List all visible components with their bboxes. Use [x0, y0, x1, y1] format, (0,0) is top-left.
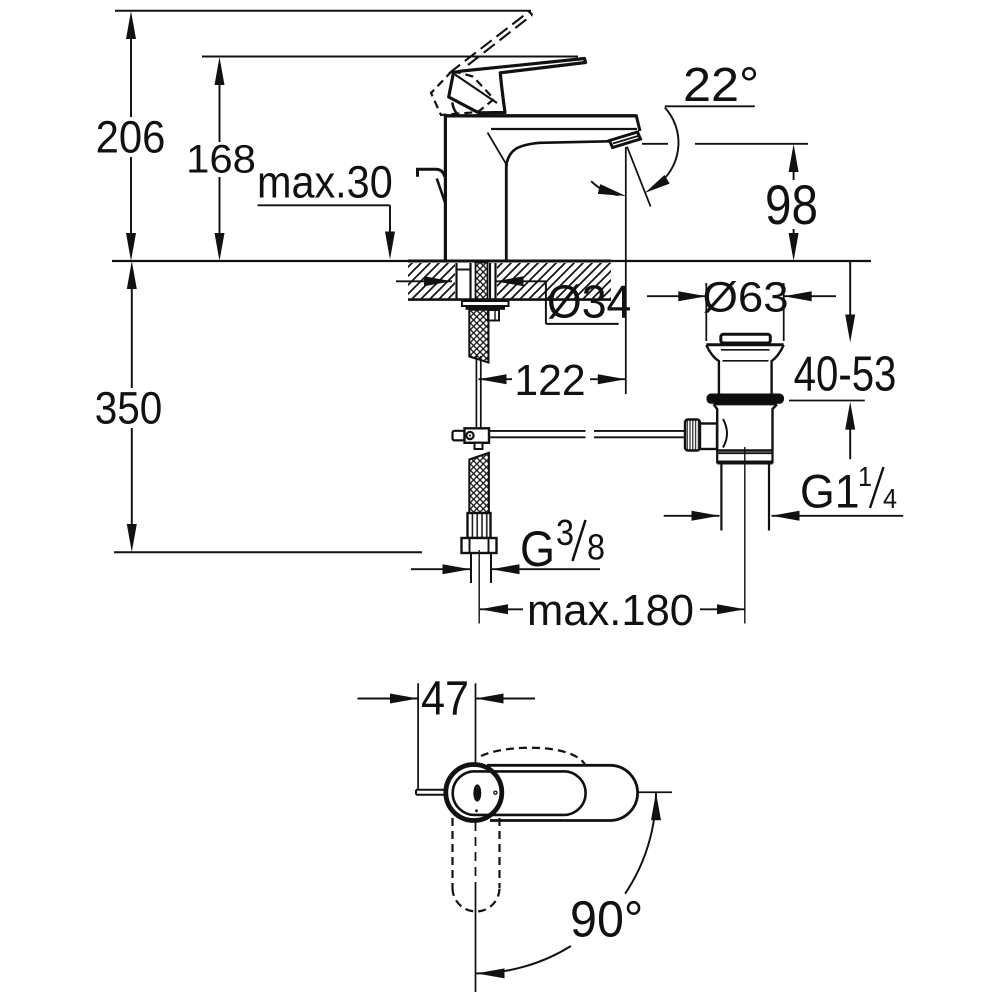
solid lever blade and knuckle: [449, 59, 586, 113]
pull-rod knob (side view): [418, 169, 445, 177]
pull rod guide tab: [488, 310, 499, 321]
98 dimension line: [789, 144, 799, 261]
lower supply hose (braided): [469, 453, 489, 513]
22 deg right arc: [662, 108, 679, 182]
stream axis vertical line: [625, 147, 627, 394]
svg-text:98: 98: [765, 174, 818, 236]
svg-text:47: 47: [421, 671, 469, 725]
dimension 168 line: [215, 57, 225, 261]
drain funnel right side: [772, 345, 784, 394]
hose crimp sleeve (ribbed): [468, 513, 491, 538]
tee left pivot cylinder: [453, 431, 465, 441]
spout right end face: [636, 115, 640, 132]
top view horizontal reference line: [638, 791, 672, 793]
spout underside curve: [506, 141, 609, 165]
tee lower stub: [475, 443, 483, 449]
98 top reference line: [642, 143, 668, 145]
drain rubber seal (black band): [707, 394, 785, 404]
top view outer lever outline: [487, 765, 638, 820]
counter hatching left of hole: [408, 263, 455, 298]
drain funnel left side: [706, 345, 719, 394]
upper supply hose (braided): [469, 310, 488, 363]
90 deg arc: [625, 792, 656, 893]
mounting nut (dark band): [466, 306, 506, 310]
svg-text:max.30: max.30: [257, 158, 393, 208]
spout root shine diagonal: [488, 133, 508, 167]
counter slab top thick segment: [408, 260, 611, 263]
drain slip nut rings: [717, 449, 772, 451]
G3/8 hex nut: [462, 538, 497, 553]
svg-text:Ø34: Ø34: [547, 276, 631, 328]
top view logo marks: [473, 784, 481, 801]
22 deg left arc: [591, 181, 618, 195]
22 deg inclined line: [627, 147, 651, 207]
shank braided hose in hole: [476, 263, 488, 301]
pipe centerline: [478, 550, 480, 624]
svg-text:90°: 90°: [570, 890, 643, 947]
svg-text:8: 8: [587, 528, 605, 568]
svg-text:G1: G1: [800, 465, 860, 517]
drain pop-up cap: [721, 334, 771, 343]
faucet body left edge: [444, 114, 447, 261]
22 deg underline: [665, 105, 755, 107]
pull rod (thin): [475, 356, 477, 429]
lever facet line: [455, 75, 497, 104]
top reference line (206 max lever height): [115, 10, 531, 12]
svg-text:22°: 22°: [683, 58, 759, 112]
svg-text:4: 4: [883, 483, 897, 515]
top view body circle: [446, 765, 502, 821]
svg-text:40-53: 40-53: [794, 347, 897, 402]
drain top flange line: [706, 343, 783, 346]
dashed raised knuckle: [431, 71, 494, 115]
shank inner left line: [469, 263, 471, 299]
shank outer right line: [494, 263, 496, 299]
svg-text:350: 350: [95, 384, 163, 434]
svg-text:1: 1: [858, 461, 872, 493]
top view pull rod: [416, 790, 447, 795]
shank step notch: [457, 269, 471, 271]
knob connector block: [700, 424, 717, 450]
dashed raised lever blade: [449, 12, 532, 74]
168 reference line (lever tip height): [202, 56, 578, 58]
counter top line: [112, 260, 871, 262]
tee main block: [465, 428, 490, 443]
svg-text:G: G: [520, 522, 555, 578]
top view inner lever outline: [453, 771, 586, 815]
dimension 206 line: [126, 11, 136, 261]
47 dimension: [358, 683, 536, 789]
aerator (tilted): [610, 132, 641, 148]
svg-text:max.180: max.180: [527, 586, 694, 635]
drain tailpipe: [720, 463, 722, 530]
svg-text:3: 3: [556, 513, 574, 553]
faucet deck top edge: [444, 114, 636, 117]
svg-text:122: 122: [514, 356, 585, 405]
bottom reference line (350 lower bound): [114, 551, 422, 553]
svg-text:206: 206: [96, 113, 166, 163]
svg-text:168: 168: [186, 137, 256, 182]
dashed lever tip cap: [529, 12, 533, 16]
drain funnel inner lines: [721, 349, 770, 351]
body inner right edge: [505, 163, 508, 261]
G3/8 connection pipe: [470, 553, 472, 583]
counter underside line: [408, 298, 611, 301]
top view vertical centerline: [475, 822, 477, 890]
drain cap under-plate: [724, 342, 767, 344]
knuckle heel arc: [452, 103, 458, 115]
horizontal linkage rod: [489, 431, 685, 437]
dimension 350 line: [127, 261, 137, 552]
drain internal arc: [723, 419, 727, 448]
drain body below seal: [714, 403, 778, 405]
mounting washer: [462, 301, 509, 306]
svg-text:Ø63: Ø63: [702, 274, 788, 322]
shank inner right line: [489, 263, 491, 299]
drain centerline: [744, 447, 746, 624]
knurled pull-rod nut: [685, 420, 700, 451]
top view dashed raised lever arc: [481, 748, 585, 765]
tee clamp screw: [466, 432, 473, 439]
top view dashed swivel lever (down position): [453, 818, 500, 911]
shank outer left line: [455, 263, 457, 299]
spout inner top line: [491, 128, 637, 130]
counter hatching right of hole: [497, 263, 611, 298]
